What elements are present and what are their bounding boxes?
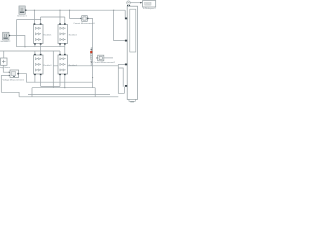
svg-text:Current Measurement1: Current Measurement1 bbox=[73, 22, 95, 25]
voltage source VS bbox=[1, 58, 8, 65]
svg-text:To Workspace1: To Workspace1 bbox=[143, 7, 156, 10]
wire B2 bottom stubs bbox=[60, 45, 65, 54]
wire mid vertical from AC rail bbox=[52, 51, 54, 88]
wire h y=88.2 bbox=[32, 88, 95, 97]
svg-text:Generator 2: Generator 2 bbox=[0, 40, 10, 43]
wire CM1 output down bbox=[88, 18, 92, 87]
wire red chain tail bbox=[90, 59, 92, 65]
bus bottom tab bbox=[129, 99, 135, 101]
generator G2 bbox=[3, 32, 10, 40]
wire bottom line y=92.4 bbox=[1, 92, 19, 97]
junction rail1/CM1 branch bbox=[69, 10, 70, 11]
DC bus block bbox=[125, 6, 138, 102]
bus port 1 bbox=[125, 18, 127, 20]
generator G1 bbox=[19, 6, 26, 14]
bus port 4 bbox=[125, 85, 127, 87]
wire B1 bottom stubs bbox=[35, 45, 41, 54]
voltage measurement VM bbox=[9, 70, 19, 77]
to workspace block bbox=[143, 1, 156, 8]
wire VM output path bbox=[19, 74, 93, 83]
svg-text:Voltage Source: Voltage Source bbox=[0, 66, 10, 69]
junction y87.7/B4 pin2 bbox=[64, 87, 65, 88]
wire B3 bottom drops bbox=[35, 76, 41, 87]
wire VM second input from ground line bbox=[1, 76, 9, 93]
wire B1 pin1 drop bbox=[33, 10, 35, 23]
power scope circle bbox=[127, 1, 143, 6]
wire bottom line y=94.5 bbox=[28, 94, 110, 96]
svg-text:Rectifier1: Rectifier1 bbox=[44, 33, 52, 36]
rectifier B2 bbox=[58, 23, 68, 44]
svg-text:Voltage Measurement1: Voltage Measurement1 bbox=[3, 79, 25, 82]
current measurement CM2 bbox=[97, 55, 104, 61]
wire rail1 top DC bus y=10.2 bbox=[25, 10, 125, 17]
wire voltage source riser bbox=[3, 51, 5, 58]
wire rail4 y=51 bbox=[0, 50, 60, 52]
wire B4 pin2 drop bbox=[64, 76, 66, 88]
wire to current measurement CM1 bbox=[70, 10, 81, 18]
junction rail2/B1 pin2 bbox=[40, 19, 41, 20]
svg-text:Rectifier4: Rectifier4 bbox=[69, 64, 77, 67]
svg-text:Rectifier2: Rectifier2 bbox=[69, 33, 77, 36]
wire h y=65.8 to bus bbox=[53, 65, 118, 67]
junction rail1/B1 bbox=[34, 10, 35, 11]
svg-text:Current Measurement2: Current Measurement2 bbox=[94, 61, 116, 64]
junction rail1/B2 bbox=[60, 10, 61, 11]
wire h y=86.4 bbox=[41, 76, 60, 87]
wire left vertical x=16.5 bbox=[16, 20, 18, 47]
rectifier B1 bbox=[34, 23, 44, 44]
junction rail1/port2 branch bbox=[113, 10, 114, 11]
wire branch to port2 bbox=[114, 10, 125, 40]
wire rail2 y=19.6 bbox=[17, 17, 65, 23]
wire generator2 output bbox=[9, 36, 25, 47]
current measurement CM1 bbox=[80, 16, 88, 22]
wire CM2 output bbox=[104, 57, 113, 59]
wire B2 pin1 drop bbox=[59, 10, 61, 23]
svg-text:simout: simout bbox=[145, 3, 151, 6]
wire inner loop x=123.2 bbox=[118, 68, 123, 87]
rectifier B3 bbox=[34, 54, 44, 75]
wire voltage source to measurement bbox=[3, 65, 9, 72]
wire rail3 y=46.8 bbox=[17, 46, 65, 48]
svg-text:Generator 1: Generator 1 bbox=[17, 15, 27, 18]
bus port 2 bbox=[125, 40, 127, 42]
wire port3 feeder bbox=[118, 64, 125, 93]
bus port 3 bbox=[125, 64, 127, 66]
rectifier B4 bbox=[58, 54, 68, 75]
wire bottom line y=96.8 bbox=[19, 96, 118, 98]
svg-text:Rectifier3: Rectifier3 bbox=[44, 64, 52, 67]
junction x92.5 line bbox=[92, 77, 93, 78]
junction rail3/G2 wire bbox=[25, 46, 26, 47]
diode red chain bbox=[90, 49, 92, 63]
